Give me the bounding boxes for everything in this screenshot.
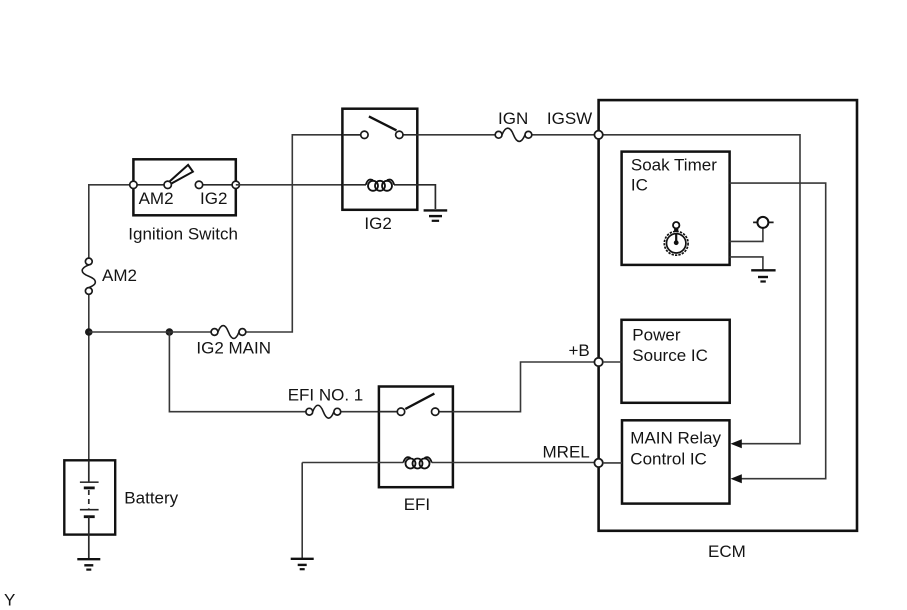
test terminal circle [753, 217, 774, 228]
wire EFI coil to MREL [453, 462, 595, 464]
svg-text:Y: Y [4, 591, 15, 610]
svg-text:IC: IC [631, 175, 648, 194]
ignition switch box [133, 159, 235, 215]
relay IG2 box [342, 109, 417, 210]
label IG2 pin [200, 189, 227, 208]
junction node B (EFI NO.1 branch) [166, 328, 174, 336]
svg-text:IGN: IGN [498, 109, 528, 128]
wire IGSW to MAIN relay control IC (upper arrow feed) [599, 135, 800, 444]
ignition switch lever [169, 165, 193, 184]
wire Soak Timer to test terminal [730, 228, 763, 241]
wire ignition switch to IG2 coil [236, 184, 343, 186]
relay IG2 contact left [361, 131, 368, 138]
wire EFI coil to ground [301, 463, 303, 559]
relay IG2 switch blade [369, 116, 397, 130]
svg-text:Ignition Switch: Ignition Switch [128, 224, 238, 243]
relay EFI switch blade [405, 394, 434, 409]
relay EFI contact right [432, 408, 439, 415]
ground (EFI coil) [291, 559, 314, 569]
ground (IG2 coil) [424, 210, 448, 220]
relay EFI box [379, 387, 453, 488]
terminal IGSW [594, 131, 602, 139]
relay EFI contact wires [379, 411, 453, 413]
wire EFI NO.1 branch [169, 332, 401, 412]
relay IG2 coil [366, 179, 394, 190]
relay IG2 coil row wire [342, 185, 435, 209]
svg-text:IG2: IG2 [200, 189, 227, 208]
relay IG2 contact wires [342, 134, 417, 136]
label Battery [124, 489, 178, 508]
Soak Timer IC box [622, 152, 730, 265]
label IGN [498, 109, 528, 128]
label ECM [708, 542, 746, 561]
ignition switch terminal AM2 [164, 181, 171, 188]
ignition switch terminal (right edge) [232, 181, 239, 188]
relay EFI contact left [397, 408, 404, 415]
svg-text:ECM: ECM [708, 542, 746, 561]
label IG2 relay [364, 214, 391, 233]
label AM2 fuse [102, 266, 137, 285]
wire Soak Timer to MAIN relay control IC (lower arrow feed) [730, 183, 826, 479]
ECM box [599, 100, 857, 531]
ground (battery) [77, 559, 100, 569]
svg-text:IG2 MAIN: IG2 MAIN [196, 339, 271, 358]
ground (soak timer) [751, 270, 775, 281]
label AM2 pin [139, 189, 174, 208]
label IGSW [547, 109, 592, 128]
svg-text:Control IC: Control IC [630, 449, 707, 468]
wire battery trunk to ignition switch [89, 185, 134, 461]
fuse EFI NO. 1 [306, 405, 341, 418]
svg-text:Soak Timer: Soak Timer [631, 156, 717, 175]
label Power Source IC [632, 325, 708, 365]
Power Source IC box [622, 320, 730, 403]
svg-text:AM2: AM2 [139, 189, 174, 208]
label IG2 MAIN [196, 339, 271, 358]
arrow into MAIN relay control IC (upper) [731, 439, 742, 448]
MAIN Relay Control IC box [622, 420, 730, 503]
terminal +B [594, 358, 602, 366]
svg-text:Source IC: Source IC [632, 346, 708, 365]
svg-text:Power: Power [632, 325, 681, 344]
stopwatch icon [664, 222, 688, 255]
label Soak Timer IC [631, 156, 717, 195]
svg-text:EFI NO. 1: EFI NO. 1 [288, 385, 364, 404]
ignition switch internal wires [133, 184, 235, 186]
svg-text:IGSW: IGSW [547, 109, 592, 128]
junction node A (battery/IG2 MAIN split) [85, 328, 93, 336]
svg-text:MAIN Relay: MAIN Relay [630, 428, 721, 447]
relay IG2 contact right [396, 131, 403, 138]
label +B [569, 341, 590, 360]
wire IG2 relay to IGN fuse [417, 134, 598, 136]
wire EFI switch output to +B [453, 362, 595, 412]
relay EFI coil row wire [302, 462, 453, 464]
svg-text:IG2: IG2 [364, 214, 391, 233]
wire MREL to MAIN relay control IC [603, 462, 622, 464]
label EFI NO. 1 [288, 385, 364, 404]
svg-text:+B: +B [569, 341, 590, 360]
fuse AM2 [82, 258, 95, 294]
arrow into MAIN relay control IC (lower) [731, 474, 742, 483]
label Ignition Switch [128, 224, 238, 243]
svg-text:MREL: MREL [543, 443, 590, 462]
label MREL [543, 443, 590, 462]
label MAIN Relay Control IC [630, 428, 721, 468]
ignition switch terminal IG2 [195, 181, 202, 188]
wire +B to Power Source IC [603, 361, 622, 363]
wire Soak Timer to ground [730, 257, 763, 270]
svg-text:Battery: Battery [124, 489, 178, 508]
label Y (page marker) [4, 591, 15, 610]
wire battery to ground [88, 535, 90, 560]
relay EFI coil [403, 457, 431, 468]
label EFI relay [404, 495, 430, 514]
svg-text:AM2: AM2 [102, 266, 137, 285]
battery [64, 460, 115, 534]
wire IG2 MAIN row [89, 135, 365, 332]
svg-text:EFI: EFI [404, 495, 430, 514]
terminal MREL [594, 459, 602, 467]
fuse IGN [495, 128, 532, 141]
ignition switch terminal (left edge) [130, 181, 137, 188]
fuse IG2 MAIN [211, 326, 246, 339]
